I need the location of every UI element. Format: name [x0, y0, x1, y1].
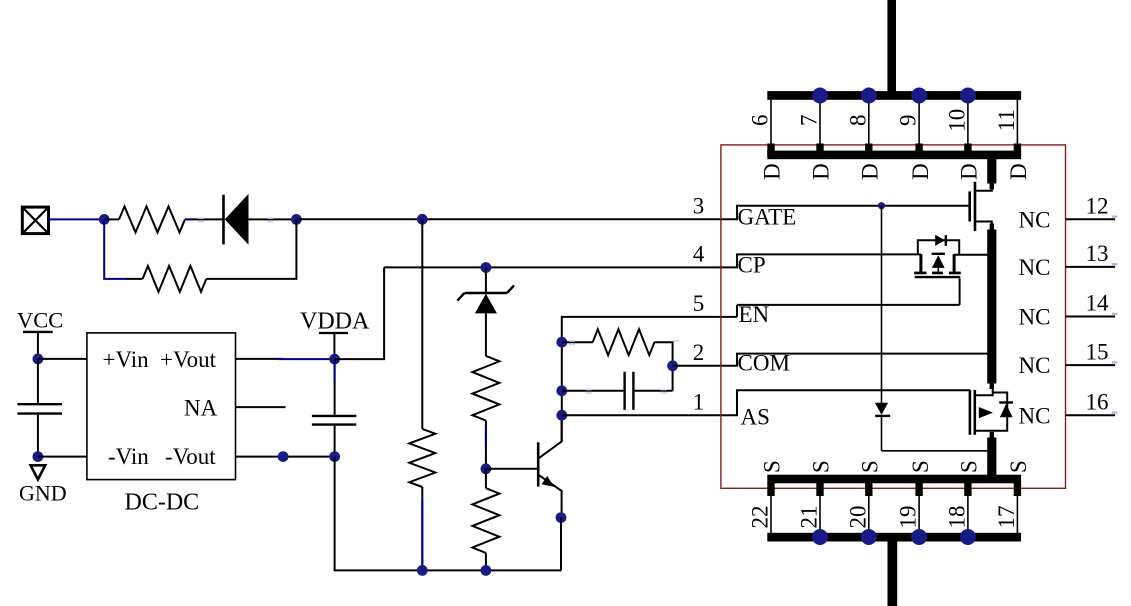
svg-text:NC: NC — [1019, 403, 1051, 428]
body diode D3 — [932, 254, 945, 272]
svg-text:12: 12 — [1086, 194, 1109, 219]
svg-text:+Vout: +Vout — [160, 347, 217, 372]
svg-text:5: 5 — [693, 291, 705, 316]
wire VCC to DC-DC +Vin — [38, 358, 87, 360]
svg-text:AS: AS — [741, 405, 770, 430]
wire CP net — [384, 254, 921, 267]
NA stub — [236, 406, 286, 408]
wire GATE net — [296, 206, 969, 220]
svg-text:COM: COM — [738, 351, 790, 376]
M2 channel pads — [914, 272, 961, 275]
thick source stub M3 — [990, 432, 994, 438]
wire base — [486, 468, 538, 470]
svg-text:S: S — [957, 460, 982, 473]
pin 14 NC lead — [1066, 316, 1116, 318]
node junction EN/C3 — [556, 385, 567, 396]
resistor R2 lower branch — [104, 219, 296, 292]
pin 12 NC lead — [1066, 218, 1116, 220]
svg-text:D: D — [908, 163, 933, 180]
svg-text:S: S — [1006, 460, 1031, 473]
resistor R4 — [472, 356, 499, 469]
node junction emitter — [556, 512, 567, 523]
thick top external lead — [887, 0, 896, 95]
NC label 15 — [1112, 361, 1118, 363]
transistor Q1 — [538, 415, 561, 518]
node junction CP/zener — [481, 262, 492, 273]
thick bottom external lead — [888, 537, 898, 606]
capacitor C3 — [562, 372, 673, 410]
input terminal X-box — [22, 207, 48, 234]
M2 contact bars — [921, 254, 954, 272]
pin 19 lead — [918, 483, 920, 533]
svg-text:S: S — [908, 460, 933, 473]
wire input to node A (blue) — [49, 218, 105, 220]
DC-DC converter U2 box — [87, 333, 236, 480]
IC U1 outline — [721, 145, 1066, 488]
pin 21 lead — [819, 483, 821, 533]
pin 8 lead — [868, 99, 870, 145]
svg-text:16: 16 — [1086, 390, 1109, 415]
wire emitter to rail — [560, 518, 562, 571]
svg-text:4: 4 — [693, 242, 705, 267]
svg-text:NC: NC — [1019, 305, 1051, 330]
svg-text:1: 1 — [693, 389, 705, 414]
capacitor C2 — [312, 359, 356, 457]
wire diode to source column — [882, 450, 992, 452]
top bus bar lower — [767, 151, 1021, 160]
svg-text:19: 19 — [896, 506, 921, 529]
NC label 12 — [1112, 216, 1118, 218]
ground symbol GND — [19, 465, 67, 505]
pin 18 lead — [967, 483, 969, 533]
svg-text:-Vout: -Vout — [165, 444, 216, 469]
bottom bus bar lower — [767, 533, 1021, 542]
svg-text:3: 3 — [693, 194, 705, 219]
resistor R1 — [104, 206, 223, 232]
svg-text:22: 22 — [748, 506, 773, 529]
top bus bar upper — [767, 91, 1021, 100]
MOSFET M1 — [970, 182, 992, 231]
node B junction — [291, 214, 302, 225]
svg-text:NC: NC — [1019, 353, 1051, 378]
top bus junction dots — [812, 88, 828, 104]
diode D2 — [935, 235, 946, 246]
svg-text:7: 7 — [797, 115, 822, 127]
svg-text:S: S — [760, 460, 785, 473]
svg-text:+Vin: +Vin — [103, 347, 150, 372]
svg-text:VDDA: VDDA — [300, 309, 370, 335]
svg-text:D: D — [809, 163, 834, 180]
svg-text:GATE: GATE — [738, 205, 797, 230]
svg-text:D: D — [760, 163, 785, 180]
svg-text:10: 10 — [945, 109, 970, 132]
node junction R5/rail — [481, 565, 492, 576]
pin 20 lead — [868, 483, 870, 533]
svg-text:17: 17 — [994, 506, 1019, 529]
VCC power symbol — [17, 308, 63, 359]
node junction below C2 — [329, 451, 340, 462]
wire +Vout to VDDA node — [236, 358, 335, 360]
svg-text:NC: NC — [1019, 207, 1051, 232]
pin 6 lead — [770, 99, 772, 145]
svg-text:14: 14 — [1086, 291, 1110, 316]
node VCC junction — [33, 354, 44, 365]
pin 16 NC lead — [1066, 414, 1116, 416]
pin 10 lead — [967, 99, 969, 145]
svg-text:15: 15 — [1086, 339, 1109, 364]
svg-text:NA: NA — [184, 395, 218, 420]
pin 22 lead — [770, 483, 772, 533]
svg-text:9: 9 — [896, 115, 921, 127]
node junction COM — [667, 360, 678, 371]
pin 7 lead — [819, 99, 821, 145]
pin 9 lead — [918, 99, 920, 145]
VDDA power symbol — [300, 309, 370, 360]
svg-text:S: S — [809, 460, 834, 473]
node VDDA junction — [329, 354, 340, 365]
wire EN net — [562, 305, 960, 441]
svg-text:NC: NC — [1019, 255, 1051, 280]
node junction R3/rail — [417, 565, 428, 576]
svg-text:-Vin: -Vin — [108, 444, 149, 469]
diode D5 — [875, 206, 890, 451]
bottom bus bar upper — [767, 475, 1021, 484]
MOSFET M3 — [970, 389, 1007, 435]
node A junction — [99, 214, 110, 225]
wire VDDA to CP riser — [335, 267, 385, 359]
thick drain stub M1 — [987, 155, 996, 184]
svg-text:S: S — [858, 460, 883, 473]
svg-text:DC-DC: DC-DC — [125, 490, 200, 516]
svg-text:11: 11 — [994, 109, 1019, 131]
svg-text:2: 2 — [693, 340, 705, 365]
NC label 13 — [1112, 263, 1118, 265]
diode D1 — [224, 194, 297, 245]
svg-text:21: 21 — [797, 506, 822, 529]
svg-text:18: 18 — [945, 506, 970, 529]
node junction on -Vout — [278, 451, 289, 462]
svg-text:6: 6 — [748, 115, 773, 127]
resistor R5 — [472, 469, 499, 571]
MOSFET M2 top line — [918, 240, 959, 255]
bottom bus junction dots — [812, 529, 828, 545]
wire COM net — [673, 354, 991, 366]
svg-text:CP: CP — [738, 252, 766, 277]
body diode D4 — [999, 403, 1013, 418]
svg-text:D: D — [858, 163, 883, 180]
thick source column — [990, 224, 994, 231]
pin 11 lead — [1016, 99, 1018, 145]
pin 13 NC lead — [1066, 266, 1116, 268]
svg-text:8: 8 — [845, 115, 870, 127]
node junction gate/diode — [878, 202, 885, 209]
capacitor C1 — [17, 359, 62, 457]
wire AS net — [562, 390, 970, 415]
node junction EN/AS — [556, 410, 567, 421]
pin 15 NC lead — [1066, 364, 1116, 366]
NC label 16 — [1112, 412, 1118, 414]
pin 17 lead — [1016, 483, 1018, 533]
svg-text:D: D — [1006, 163, 1031, 180]
node junction GATE/R3 — [417, 214, 428, 225]
wire to DC-DC -Vin — [38, 456, 87, 458]
node junction EN/R6 — [556, 337, 567, 348]
svg-text:D: D — [957, 163, 982, 180]
resistor R6 — [562, 329, 673, 391]
svg-text:EN: EN — [739, 302, 770, 327]
svg-text:13: 13 — [1086, 241, 1109, 266]
wire down to bottom rail — [335, 457, 562, 571]
M2 gate lead — [959, 278, 961, 305]
wire -Vout — [236, 456, 335, 458]
M2 right lead to source column — [954, 254, 991, 256]
svg-text:GND: GND — [19, 480, 67, 505]
zener diode ZD1 — [457, 268, 514, 356]
svg-text:20: 20 — [845, 506, 870, 529]
M2 gate bar — [915, 276, 961, 278]
NC label 14 — [1112, 313, 1118, 315]
node junction base — [481, 463, 492, 474]
svg-text:VCC: VCC — [17, 308, 63, 333]
resistor R3 — [409, 219, 435, 570]
node GND junction — [33, 451, 44, 462]
DC-DC pin labels — [103, 347, 218, 469]
